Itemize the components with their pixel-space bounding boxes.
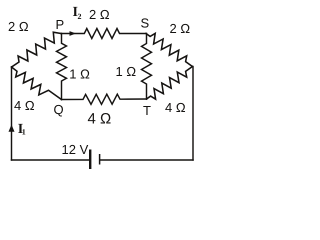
wire bottom-right from battery negative plate to bottom-right corner xyxy=(101,159,194,161)
wire bottom-left from corner to battery positive plate xyxy=(12,159,90,161)
svg-text:1: 1 xyxy=(22,128,26,137)
current arrow I1 on left branch pointing up xyxy=(9,125,15,132)
svg-text:4 Ω: 4 Ω xyxy=(88,111,112,128)
current arrow I2 on wire from P toward S xyxy=(70,31,77,36)
resistor 1ohm vertical between S and T xyxy=(142,34,152,100)
svg-text:2 Ω: 2 Ω xyxy=(170,21,191,36)
svg-text:1 Ω: 1 Ω xyxy=(69,66,90,81)
resistor 2ohm diagonal between node A (left vertex) and P xyxy=(12,32,62,67)
svg-text:4 Ω: 4 Ω xyxy=(14,98,35,113)
resistor 4ohm diagonal between T and node B (right vertex) xyxy=(147,67,193,100)
resistor 1ohm vertical between P and Q xyxy=(57,34,67,100)
wire left branch from node A down to bottom-left corner xyxy=(11,67,13,160)
resistor 2ohm top between P and S xyxy=(61,29,146,39)
wire right branch from node B down to bottom-right corner xyxy=(192,67,194,161)
resistor 4ohm diagonal between node A (left vertex) and Q xyxy=(12,67,62,100)
battery 12V negative plate (short) xyxy=(99,154,101,165)
svg-text:T: T xyxy=(143,103,151,118)
svg-text:4 Ω: 4 Ω xyxy=(165,100,186,115)
svg-text:1 Ω: 1 Ω xyxy=(116,64,137,79)
svg-text:2: 2 xyxy=(78,12,82,21)
svg-text:S: S xyxy=(141,16,150,31)
svg-text:2 Ω: 2 Ω xyxy=(89,7,110,22)
battery 12V positive plate (long) xyxy=(89,150,91,170)
resistor 2ohm diagonal between S and node B (right vertex) xyxy=(146,33,193,66)
svg-text:2 Ω: 2 Ω xyxy=(8,19,29,34)
svg-text:P: P xyxy=(56,17,65,32)
svg-text:12 V: 12 V xyxy=(62,142,89,157)
resistor 4ohm bottom between Q and T xyxy=(62,94,147,104)
svg-text:Q: Q xyxy=(54,102,64,117)
